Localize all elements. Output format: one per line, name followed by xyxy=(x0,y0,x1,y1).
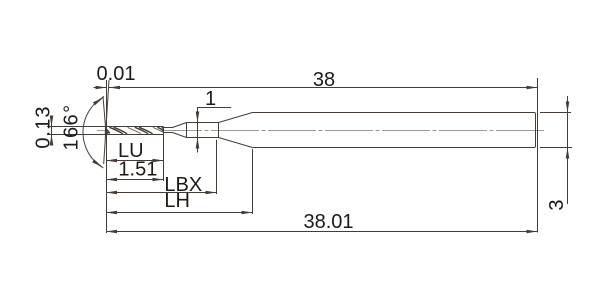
svg-text:38.01: 38.01 xyxy=(303,211,353,233)
svg-text:3: 3 xyxy=(546,199,568,210)
svg-text:38: 38 xyxy=(313,69,335,91)
svg-text:0.13: 0.13 xyxy=(33,105,55,148)
svg-text:0.01: 0.01 xyxy=(97,63,136,85)
svg-text:1: 1 xyxy=(205,88,216,110)
svg-text:1.51: 1.51 xyxy=(118,158,157,180)
svg-text:166°: 166° xyxy=(60,104,82,151)
svg-text:LH: LH xyxy=(164,190,190,212)
